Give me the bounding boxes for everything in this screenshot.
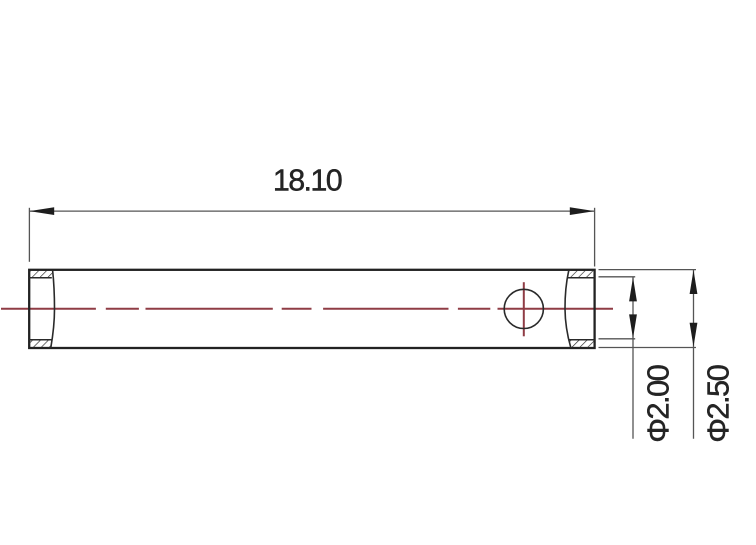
tube body outline	[29, 270, 594, 348]
dim phi2.00 line	[632, 277, 634, 438]
right end curve	[565, 270, 571, 348]
dim phi2.50 bottom extension line	[599, 347, 697, 349]
dim 18.10 left arrow	[29, 207, 54, 215]
dim phi2.00 up arrow	[629, 277, 637, 301]
hole circle	[504, 289, 543, 328]
dim 18.10 right arrow	[570, 207, 595, 215]
hatch top-left	[29, 270, 52, 278]
left end curve	[51, 270, 55, 348]
dim phi2.50 up arrow	[690, 270, 698, 294]
hatch bottom-left	[29, 340, 52, 348]
svg-text:Φ2.50: Φ2.50	[701, 364, 736, 442]
dim 18.10 right extension line	[594, 208, 596, 267]
dim phi2.00 down arrow	[629, 314, 637, 338]
dim 18.10 line	[30, 210, 594, 212]
red centerline	[1, 308, 613, 310]
hatch bottom-right	[568, 340, 594, 348]
hole crosshair vertical	[523, 282, 525, 336]
svg-text:Φ2.00: Φ2.00	[641, 364, 676, 442]
dim phi2.50 line	[693, 270, 695, 439]
dim phi2.00 top extension line	[599, 276, 636, 278]
dim phi2.50 down arrow	[690, 323, 698, 347]
svg-text:18.10: 18.10	[273, 164, 342, 198]
hatch top-right	[568, 270, 595, 278]
dim phi2.50 top extension line	[599, 269, 697, 271]
dim phi2.00 bottom extension line	[599, 338, 636, 340]
dim 18.10 left extension line	[28, 208, 30, 262]
